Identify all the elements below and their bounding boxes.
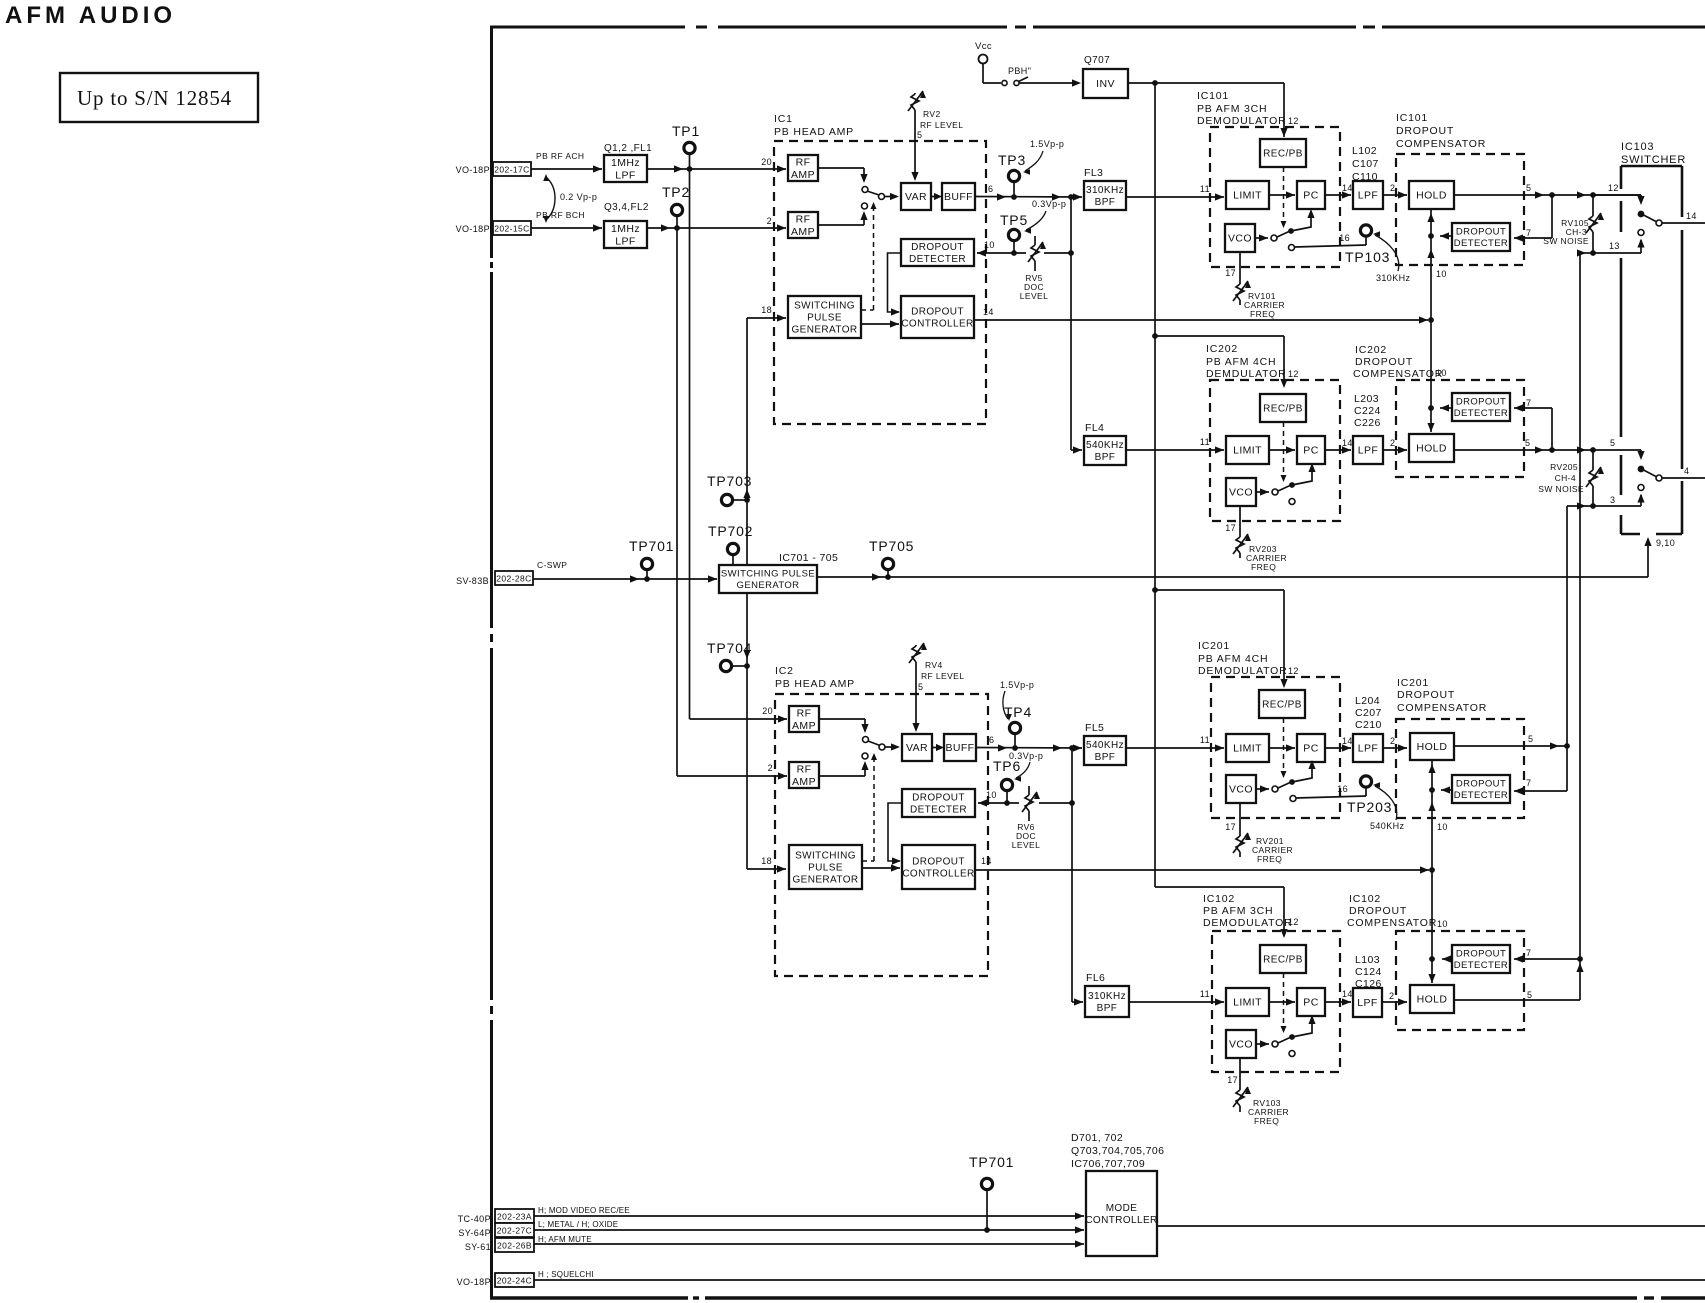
svg-text:LPF: LPF	[1357, 997, 1377, 1009]
block VAR (IC2)	[902, 734, 932, 761]
block LPF (IC201 comp input)	[1353, 734, 1383, 762]
svg-text:DEMODULATOR: DEMODULATOR	[1197, 115, 1287, 127]
svg-text:IC103: IC103	[1621, 141, 1654, 153]
svg-text:LPF: LPF	[615, 235, 635, 247]
svg-text:BPF: BPF	[1095, 452, 1116, 463]
svg-text:1.5Vp-p: 1.5Vp-p	[1030, 139, 1064, 149]
wire junction down to FL4	[1070, 197, 1072, 450]
svg-text:Q3,4,FL2: Q3,4,FL2	[604, 202, 649, 213]
svg-text:14: 14	[1342, 736, 1353, 746]
block SWITCHING PULSE GENERATOR (IC2)	[789, 845, 862, 889]
block LIMIT (IC202)	[1226, 436, 1269, 464]
wire LPF2 output to RF AMP pin 2	[647, 227, 786, 229]
svg-text:AMP: AMP	[792, 720, 816, 732]
svg-text:VO-18P: VO-18P	[456, 165, 490, 175]
wire dropout detecter to hold line (IC201)	[1441, 789, 1452, 791]
svg-text:7: 7	[1526, 228, 1531, 238]
svg-text:HOLD: HOLD	[1417, 994, 1448, 1006]
svg-text:IC102: IC102	[1203, 893, 1235, 905]
border bottom (dash-dot)	[490, 1296, 688, 1299]
block BUFF (IC2)	[944, 734, 976, 761]
svg-text:FREQ: FREQ	[1250, 309, 1275, 319]
block REC/PB (IC101)	[1260, 139, 1306, 167]
wire dropout detecter to hold line (IC102)	[1442, 958, 1452, 960]
svg-text:SWITCHING: SWITCHING	[795, 851, 856, 862]
svg-text:REC/PB: REC/PB	[1263, 404, 1303, 415]
wire LIMIT to PC (IC101)	[1269, 194, 1295, 196]
IC102 switch off-throw	[1289, 1051, 1295, 1057]
svg-text:10: 10	[986, 790, 997, 800]
svg-text:LEVEL: LEVEL	[1020, 291, 1048, 301]
svg-text:14: 14	[983, 307, 994, 317]
svg-text:RF: RF	[797, 707, 812, 719]
svg-text:5: 5	[1525, 438, 1530, 448]
svg-text:HOLD: HOLD	[1416, 443, 1447, 455]
wire INV to REC/PB IC101 pin 12	[1283, 83, 1285, 137]
svg-text:SWITCHING PULSE: SWITCHING PULSE	[721, 569, 815, 580]
svg-text:17: 17	[1227, 1075, 1238, 1085]
border top (dash-dot)	[490, 26, 685, 29]
svg-text:COMPENSATOR: COMPENSATOR	[1353, 368, 1443, 380]
svg-text:TP2: TP2	[662, 184, 690, 200]
wire rec/pb branch to IC102	[1155, 886, 1284, 888]
svg-text:PB RF ACH: PB RF ACH	[536, 151, 584, 161]
block VCO (IC101)	[1225, 224, 1255, 252]
wire PC to LPF pin 14 (IC202)	[1325, 449, 1351, 451]
svg-text:5: 5	[917, 130, 922, 140]
svg-text:REC/PB: REC/PB	[1263, 955, 1303, 966]
block DROPOUT DETECTER (IC202)	[1452, 393, 1510, 421]
svg-text:DROPOUT: DROPOUT	[1456, 779, 1506, 790]
svg-text:12: 12	[1288, 369, 1299, 379]
block DROPOUT DETECTER (IC101)	[1452, 223, 1510, 251]
svg-text:H ; SQUELCHI: H ; SQUELCHI	[538, 1270, 594, 1279]
svg-text:11: 11	[1200, 437, 1210, 447]
IC102 demod switch	[1256, 1043, 1269, 1045]
wire pin 14 out of switcher	[1662, 222, 1705, 224]
trimmer RV101 CARRIER FREQ	[1239, 283, 1241, 284]
wire pulse generator output to switcher pins 9,10	[817, 576, 1648, 578]
wire channel feed up to switcher pin 3	[1566, 506, 1568, 746]
switch off-throw and wire to TP103 pin 16	[1289, 245, 1295, 251]
svg-text:2: 2	[1390, 736, 1395, 746]
IC2 head switch	[819, 718, 865, 720]
dashed link pulse generator to head switch (IC1)	[861, 309, 874, 311]
block RF AMP (IC2 ch A)	[789, 706, 819, 732]
svg-text:SW NOISE: SW NOISE	[1538, 484, 1584, 494]
svg-text:PB AFM 3CH: PB AFM 3CH	[1203, 905, 1273, 917]
svg-text:16: 16	[1337, 784, 1348, 794]
svg-text:IC101: IC101	[1197, 90, 1229, 102]
svg-text:DETECTER: DETECTER	[909, 254, 966, 265]
block LIMIT (IC201)	[1226, 734, 1269, 762]
svg-text:IC102: IC102	[1349, 893, 1381, 905]
svg-text:18: 18	[761, 856, 772, 866]
block REC/PB (IC202)	[1260, 394, 1306, 422]
svg-text:1MHz: 1MHz	[611, 223, 640, 235]
svg-text:540KHz: 540KHz	[1086, 740, 1124, 751]
svg-text:COMPENSATOR: COMPENSATOR	[1396, 138, 1486, 150]
svg-text:PB AFM 4CH: PB AFM 4CH	[1206, 356, 1276, 368]
svg-text:1MHz: 1MHz	[611, 157, 640, 169]
block REC/PB (IC102)	[1260, 945, 1306, 973]
wire RV2 into VAR pin 5	[914, 135, 916, 179]
svg-text:C-SWP: C-SWP	[537, 560, 567, 570]
dashed control REC/PB to demod switch (IC101)	[1283, 167, 1285, 226]
svg-text:FREQ: FREQ	[1257, 854, 1282, 864]
svg-text:310KHz: 310KHz	[1086, 185, 1124, 196]
svg-text:SW NOISE: SW NOISE	[1543, 236, 1589, 246]
wire RV4 into VAR pin 5 (IC2)	[915, 686, 917, 730]
svg-text:BPF: BPF	[1097, 1003, 1118, 1014]
svg-text:IC706,707,709: IC706,707,709	[1071, 1158, 1145, 1170]
svg-text:PULSE: PULSE	[807, 313, 842, 324]
svg-text:540KHz: 540KHz	[1370, 821, 1405, 831]
block PC (IC202)	[1297, 436, 1325, 464]
svg-text:DROPOUT: DROPOUT	[911, 242, 964, 253]
block VCO (IC102)	[1226, 1030, 1256, 1058]
svg-text:11: 11	[1200, 735, 1210, 745]
svg-text:10: 10	[1436, 269, 1447, 279]
svg-text:C207: C207	[1355, 707, 1382, 719]
svg-text:PB HEAD AMP: PB HEAD AMP	[775, 678, 855, 690]
svg-text:LIMIT: LIMIT	[1233, 743, 1262, 755]
svg-text:DROPOUT: DROPOUT	[911, 307, 964, 318]
dashed control REC/PB to demod switch (IC102)	[1283, 973, 1285, 1031]
svg-text:PB RF BCH: PB RF BCH	[536, 210, 585, 220]
wire LPF to HOLD pin 2 (IC102)	[1382, 1001, 1407, 1003]
dashed control REC/PB to demod switch (IC202)	[1283, 422, 1285, 480]
wire LPF1 output to RF AMP pin 20	[647, 168, 786, 170]
svg-text:RF LEVEL: RF LEVEL	[920, 120, 963, 130]
svg-text:310KHz: 310KHz	[1376, 273, 1411, 283]
svg-text:FL6: FL6	[1086, 972, 1105, 984]
trimmer RV2 RF LEVEL	[914, 93, 916, 94]
svg-text:11: 11	[1200, 989, 1210, 999]
block PC (IC101)	[1297, 181, 1325, 209]
wire VCO pin 17 to RV203	[1239, 506, 1241, 535]
wire PBH switch to INV	[1019, 82, 1079, 84]
svg-text:HOLD: HOLD	[1417, 741, 1448, 753]
svg-text:RV4: RV4	[925, 660, 943, 670]
svg-text:Q703,704,705,706: Q703,704,705,706	[1071, 1145, 1164, 1157]
wire dropout detecter to dropout controller (IC2)	[888, 803, 902, 861]
wire LPF to HOLD pin 2 (IC201)	[1383, 747, 1407, 749]
svg-text:SWITCHING: SWITCHING	[794, 301, 855, 312]
block BUFF (IC1)	[942, 183, 975, 210]
svg-text:SY-64P: SY-64P	[458, 1228, 491, 1238]
svg-text:BUFF: BUFF	[944, 191, 973, 203]
svg-text:2: 2	[1389, 991, 1394, 1001]
trimmer RV105 CH-3 SW NOISE	[1592, 195, 1594, 216]
border left (dash-dot)	[490, 26, 493, 258]
IC201 demod switch	[1256, 788, 1269, 790]
wire FL5 to LIMIT pin 11 (IC201)	[1126, 747, 1224, 749]
svg-text:202-23A: 202-23A	[497, 1212, 532, 1222]
svg-text:TC-40P: TC-40P	[458, 1214, 491, 1224]
svg-text:RV205: RV205	[1550, 462, 1578, 472]
serial number note box	[60, 73, 258, 122]
wire node TP2 down to IC2 RF AMP	[676, 228, 678, 776]
svg-text:AMP: AMP	[792, 776, 816, 788]
svg-text:RV2: RV2	[923, 109, 941, 119]
svg-text:Q1,2 ,FL1: Q1,2 ,FL1	[604, 143, 652, 154]
wire FL3 to LIMIT pin 11	[1126, 196, 1224, 198]
svg-text:7: 7	[1526, 948, 1531, 958]
svg-text:DROPOUT: DROPOUT	[1355, 356, 1413, 368]
svg-text:DETECTER: DETECTER	[1454, 960, 1508, 971]
wire junction down to FL6	[1071, 748, 1073, 1002]
IC202 switch off-throw	[1289, 499, 1295, 505]
svg-text:LEVEL: LEVEL	[1012, 840, 1040, 850]
svg-text:202-15C: 202-15C	[494, 224, 529, 234]
svg-text:REC/PB: REC/PB	[1262, 700, 1302, 711]
svg-text:DEMODULATOR: DEMODULATOR	[1198, 665, 1288, 677]
svg-text:5: 5	[1526, 183, 1531, 193]
svg-text:C107: C107	[1352, 158, 1379, 170]
dashed link pulse generator to head switch (IC2)	[862, 860, 874, 862]
svg-text:GENERATOR: GENERATOR	[792, 875, 858, 886]
svg-text:DROPOUT: DROPOUT	[912, 857, 965, 868]
block SWITCHING PULSE GENERATOR (IC1)	[788, 296, 861, 338]
svg-text:10: 10	[984, 240, 995, 250]
svg-text:14: 14	[1342, 438, 1353, 448]
svg-text:11: 11	[1200, 184, 1210, 194]
block PC (IC102)	[1297, 988, 1325, 1016]
svg-text:IC202: IC202	[1355, 344, 1387, 356]
svg-text:TP3: TP3	[998, 152, 1026, 168]
svg-text:RF: RF	[796, 156, 811, 168]
trimmer RV201 CARRIER FREQ	[1239, 833, 1241, 836]
svg-text:16: 16	[1339, 233, 1350, 243]
svg-text:FREQ: FREQ	[1254, 1116, 1279, 1126]
svg-text:7: 7	[1526, 778, 1531, 788]
svg-text:C226: C226	[1354, 417, 1381, 429]
svg-text:IC701 - 705: IC701 - 705	[779, 552, 838, 564]
wire mode controller output	[1157, 1225, 1705, 1227]
svg-text:VO-18P: VO-18P	[457, 1277, 491, 1287]
svg-text:L103: L103	[1355, 954, 1380, 966]
block LPF (IC202 comp input)	[1353, 436, 1383, 464]
svg-text:L204: L204	[1355, 695, 1380, 707]
svg-text:VO-18P: VO-18P	[456, 224, 490, 234]
wire dropout detecter to hold line (IC202)	[1440, 407, 1452, 409]
svg-text:IC2: IC2	[775, 665, 794, 677]
IC1 head switch	[818, 167, 864, 169]
IC1 switch control (dashed from pulse generator)	[873, 204, 875, 310]
wire VCO pin 17 to RV103	[1239, 1058, 1241, 1088]
svg-text:GENERATOR: GENERATOR	[791, 325, 857, 336]
svg-text:TP203: TP203	[1347, 799, 1392, 815]
svg-text:6: 6	[988, 184, 993, 194]
IC2 switch control (dashed from pulse generator)	[873, 755, 875, 861]
svg-text:Vcc: Vcc	[975, 41, 992, 52]
svg-text:TP701: TP701	[629, 538, 674, 554]
wire VCO pin 17 to RV101	[1239, 252, 1241, 283]
wire INV output bus	[1128, 82, 1284, 84]
svg-text:L102: L102	[1352, 145, 1377, 157]
svg-text:DETECTER: DETECTER	[910, 805, 967, 816]
block RF AMP (IC1 ch B)	[788, 212, 818, 238]
wire C-SWP to pulse generator	[533, 578, 717, 580]
svg-text:14: 14	[981, 856, 992, 866]
trimmer RV203 CARRIER FREQ	[1239, 535, 1241, 537]
svg-text:0.3Vp-p: 0.3Vp-p	[1009, 751, 1043, 761]
svg-text:DETECTER: DETECTER	[1454, 238, 1508, 249]
svg-text:PC: PC	[1303, 997, 1318, 1009]
svg-text:17: 17	[1225, 523, 1236, 533]
svg-text:12: 12	[1288, 666, 1299, 676]
svg-text:IC201: IC201	[1397, 677, 1429, 689]
test point TP103	[1360, 225, 1371, 236]
svg-text:LPF: LPF	[615, 169, 635, 181]
svg-text:1.5Vp-p: 1.5Vp-p	[1000, 680, 1034, 690]
wire FL6 to LIMIT pin 11 (IC102)	[1129, 1001, 1224, 1003]
svg-text:VCO: VCO	[1229, 1039, 1253, 1051]
svg-text:DROPOUT: DROPOUT	[912, 793, 965, 804]
svg-text:2: 2	[1390, 438, 1395, 448]
svg-text:AFM AUDIO: AFM AUDIO	[5, 2, 176, 29]
switch throw 3	[1638, 485, 1644, 491]
svg-text:D701, 702: D701, 702	[1071, 1132, 1123, 1144]
block VCO (IC201)	[1226, 775, 1256, 803]
svg-text:14: 14	[1686, 211, 1697, 221]
svg-text:Up to S/N 12854: Up to S/N 12854	[77, 86, 232, 110]
block DROPOUT DETECTER (IC102)	[1452, 945, 1510, 973]
dashed control REC/PB to demod switch (IC201)	[1283, 718, 1285, 776]
svg-text:PULSE: PULSE	[808, 863, 843, 874]
hold control vertical pin 10 (IC101/IC202)	[1430, 209, 1432, 432]
wire LIMIT to PC (IC102)	[1269, 1001, 1295, 1003]
svg-text:FL3: FL3	[1084, 167, 1103, 179]
svg-text:H; AFM MUTE: H; AFM MUTE	[538, 1235, 592, 1244]
wire rec/pb branch to IC202	[1155, 335, 1284, 337]
svg-text:DROPOUT: DROPOUT	[1456, 949, 1506, 960]
svg-text:CONTROLLER: CONTROLLER	[902, 869, 974, 880]
svg-text:VCO: VCO	[1229, 487, 1253, 499]
svg-text:LIMIT: LIMIT	[1233, 190, 1262, 202]
svg-text:7: 7	[1526, 398, 1531, 408]
svg-text:5: 5	[1527, 990, 1532, 1000]
svg-text:FL5: FL5	[1085, 722, 1104, 734]
block DROPOUT DETECTER (IC201)	[1452, 775, 1510, 803]
block LPF (IC101 dropout comp input)	[1353, 181, 1383, 209]
switch off-throw and wire to TP203 pin 16	[1290, 796, 1296, 802]
svg-text:IC101: IC101	[1396, 112, 1428, 124]
wire PC to LPF pin 14 (IC201)	[1325, 747, 1351, 749]
svg-text:TP5: TP5	[1000, 212, 1028, 228]
svg-text:202-27C: 202-27C	[497, 1226, 532, 1236]
svg-text:DROPOUT: DROPOUT	[1349, 905, 1407, 917]
svg-text:CONTROLLER: CONTROLLER	[1085, 1215, 1157, 1226]
trimmer RV205 CH-4 SW NOISE	[1592, 450, 1594, 470]
svg-text:PB HEAD AMP: PB HEAD AMP	[774, 126, 854, 138]
svg-text:C224: C224	[1354, 405, 1381, 417]
svg-text:VAR: VAR	[905, 191, 927, 203]
block RF AMP (IC2 ch B)	[789, 762, 819, 788]
svg-text:0.3Vp-p: 0.3Vp-p	[1032, 199, 1066, 209]
svg-text:DEMODULATOR: DEMODULATOR	[1203, 917, 1293, 929]
svg-text:10: 10	[1437, 919, 1448, 929]
wire channel B feed to pin 13 (from IC102 hold)	[1580, 252, 1593, 254]
svg-text:17: 17	[1225, 268, 1236, 278]
wire IC1 pulse generator to dropout controller	[861, 323, 899, 325]
svg-text:0.2 Vp-p: 0.2 Vp-p	[560, 192, 597, 202]
svg-text:2: 2	[767, 216, 772, 226]
svg-text:L203: L203	[1354, 393, 1379, 405]
svg-text:DROPOUT: DROPOUT	[1456, 227, 1506, 238]
wire node TP1 down to IC2 RF AMP	[689, 169, 691, 719]
wire pulse generator down to IC2 pin 18	[746, 593, 748, 869]
svg-text:13: 13	[1609, 241, 1620, 251]
svg-text:COMPENSATOR: COMPENSATOR	[1347, 917, 1437, 929]
block DROPOUT CONTROLLER (IC2)	[902, 845, 975, 889]
svg-text:PB AFM 3CH: PB AFM 3CH	[1197, 103, 1267, 115]
test point TP203	[1360, 776, 1371, 787]
svg-text:LPF: LPF	[1358, 445, 1378, 457]
svg-text:DROPOUT: DROPOUT	[1396, 125, 1454, 137]
svg-text:Q707: Q707	[1084, 55, 1110, 66]
svg-text:540KHz: 540KHz	[1086, 440, 1124, 451]
wire FL4 to LIMIT pin 11 (IC202)	[1126, 449, 1224, 451]
svg-text:TP103: TP103	[1345, 249, 1390, 265]
svg-text:BPF: BPF	[1095, 752, 1116, 763]
svg-text:2: 2	[768, 763, 773, 773]
block DROPOUT DETECTER (IC1)	[901, 239, 974, 266]
wire PC to LPF pin 14 (IC101)	[1325, 194, 1351, 196]
svg-text:BPF: BPF	[1095, 197, 1116, 208]
svg-text:2: 2	[1390, 183, 1395, 193]
wire LPF to HOLD pin 2 (IC101)	[1383, 194, 1407, 196]
svg-text:C210: C210	[1355, 719, 1382, 731]
svg-text:RF: RF	[797, 763, 812, 775]
svg-text:310KHz: 310KHz	[1088, 991, 1126, 1002]
switcher pole 1	[1638, 211, 1645, 218]
svg-text:14: 14	[1342, 183, 1353, 193]
svg-text:5: 5	[1528, 734, 1533, 744]
block DROPOUT CONTROLLER (IC1)	[901, 296, 974, 338]
svg-text:DROPOUT: DROPOUT	[1456, 397, 1506, 408]
trimmer RV103 CARRIER FREQ	[1239, 1088, 1241, 1090]
svg-text:TP701: TP701	[969, 1154, 1014, 1170]
svg-text:5: 5	[918, 682, 923, 692]
wire A channel into IC2 pin 20	[690, 718, 788, 720]
svg-text:12: 12	[1288, 116, 1299, 126]
svg-text:CH-4: CH-4	[1555, 473, 1576, 483]
svg-text:SV-83B: SV-83B	[456, 576, 489, 586]
svg-text:AMP: AMP	[791, 226, 815, 238]
wire dropout detecter to hold line (IC101)	[1440, 235, 1452, 237]
wire pin 4 out of switcher	[1662, 477, 1705, 479]
IC101 demod switch	[1255, 237, 1268, 239]
wire dropout detecter to dropout controller (IC1)	[888, 253, 902, 312]
svg-text:VAR: VAR	[906, 742, 928, 754]
svg-text:9,10: 9,10	[1656, 538, 1675, 548]
wire rec/pb control vertical	[1154, 83, 1156, 887]
wire VAR to BUFF	[934, 193, 942, 200]
block RF AMP (IC1 ch A)	[788, 155, 818, 181]
block VCO (IC202)	[1226, 478, 1256, 506]
wire LPF to HOLD pin 2 (IC202)	[1383, 449, 1407, 451]
svg-text:SWITCHER: SWITCHER	[1621, 154, 1686, 166]
svg-text:20: 20	[762, 706, 773, 716]
svg-text:PC: PC	[1303, 743, 1318, 755]
wire B channel into IC2 pin 2	[677, 775, 787, 777]
svg-text:DROPOUT: DROPOUT	[1397, 689, 1455, 701]
svg-text:DEMDULATOR: DEMDULATOR	[1206, 368, 1287, 380]
wire pulse generator up to IC1 pin 18	[746, 318, 748, 565]
svg-text:FREQ: FREQ	[1251, 562, 1276, 572]
